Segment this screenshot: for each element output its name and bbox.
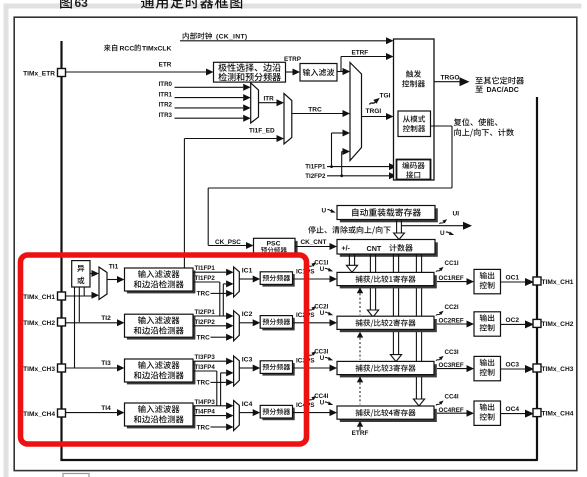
svg-text:CC1I: CC1I — [314, 260, 328, 267]
svg-text:CC4I: CC4I — [445, 394, 459, 401]
svg-text:TI1FP1: TI1FP1 — [195, 265, 216, 272]
svg-text:ITR: ITR — [264, 96, 275, 103]
svg-text:(CK_INT): (CK_INT) — [216, 34, 247, 41]
svg-text:TRGO: TRGO — [441, 75, 460, 82]
svg-text:TIMx_CH3: TIMx_CH3 — [23, 366, 55, 373]
svg-text:ITR1: ITR1 — [159, 91, 173, 98]
svg-text:TI4FP3: TI4FP3 — [195, 399, 216, 406]
svg-text:TI4FP4: TI4FP4 — [195, 409, 216, 416]
svg-text:OC2: OC2 — [506, 317, 520, 324]
svg-text:TIMx_ETR: TIMx_ETR — [23, 70, 55, 77]
svg-text:OC1: OC1 — [506, 275, 520, 282]
svg-text:CC3I: CC3I — [314, 349, 328, 356]
svg-text:DAC/ADC: DAC/ADC — [487, 87, 519, 94]
svg-text:63: 63 — [75, 0, 89, 10]
svg-text:IC4: IC4 — [242, 401, 253, 408]
svg-text:TIMxCLK: TIMxCLK — [142, 45, 172, 52]
svg-text:U: U — [320, 400, 325, 407]
svg-text:TIMx_CH1: TIMx_CH1 — [542, 279, 574, 286]
svg-text:CC2I: CC2I — [314, 303, 328, 310]
svg-text:PSC: PSC — [267, 241, 281, 248]
svg-text:CK_PSC: CK_PSC — [215, 239, 241, 246]
svg-text:CK_CNT: CK_CNT — [301, 239, 327, 246]
svg-text:CC3I: CC3I — [445, 349, 459, 356]
svg-text:U: U — [320, 355, 325, 362]
svg-text:TI3FP4: TI3FP4 — [195, 364, 216, 371]
svg-text:IC3: IC3 — [242, 356, 253, 363]
svg-text:U: U — [322, 207, 327, 214]
svg-text:+/-: +/- — [342, 246, 351, 253]
svg-text:TRC: TRC — [197, 380, 211, 387]
svg-text:OC3REF: OC3REF — [439, 362, 464, 369]
svg-text:TRC: TRC — [308, 106, 322, 113]
svg-text:OC4REF: OC4REF — [439, 407, 464, 414]
svg-text:OC2REF: OC2REF — [439, 318, 464, 325]
svg-text:ETRF: ETRF — [352, 49, 369, 56]
svg-text:TI1: TI1 — [109, 263, 119, 270]
svg-text:TRC: TRC — [197, 335, 211, 342]
svg-text:CC1I: CC1I — [445, 260, 459, 267]
svg-text:TIMx_CH2: TIMx_CH2 — [542, 321, 574, 328]
svg-text:TI1F_ED: TI1F_ED — [249, 128, 275, 135]
svg-text:ETRF: ETRF — [352, 430, 369, 437]
svg-text:IC2: IC2 — [242, 311, 253, 318]
svg-text:ETRP: ETRP — [284, 56, 302, 63]
svg-text:ITR3: ITR3 — [159, 112, 173, 119]
svg-text:TRC: TRC — [197, 291, 211, 298]
svg-text:U: U — [440, 230, 445, 237]
svg-text:TI2: TI2 — [101, 315, 111, 322]
svg-text:U: U — [320, 266, 325, 273]
svg-text:TIMx_CH4: TIMx_CH4 — [542, 410, 574, 417]
svg-text:OC3: OC3 — [506, 362, 520, 369]
svg-text:TIMx_CH4: TIMx_CH4 — [23, 411, 55, 418]
svg-text:IC1: IC1 — [242, 267, 253, 274]
svg-text:U: U — [320, 310, 325, 317]
svg-text:ETR: ETR — [159, 61, 172, 68]
svg-text:TIMx_CH2: TIMx_CH2 — [23, 320, 55, 327]
svg-text:ITR2: ITR2 — [159, 102, 173, 109]
svg-text:TRGI: TRGI — [366, 108, 382, 115]
svg-text:CC4I: CC4I — [314, 393, 328, 400]
svg-text:TI2FP1: TI2FP1 — [195, 309, 216, 316]
svg-text:TIMx_CH1: TIMx_CH1 — [23, 294, 55, 301]
svg-text:TI2FP2: TI2FP2 — [195, 319, 216, 326]
svg-text:CNT: CNT — [367, 244, 382, 253]
svg-text:UI: UI — [453, 211, 460, 218]
svg-text:TI4: TI4 — [101, 405, 111, 412]
svg-text:TI1FP2: TI1FP2 — [195, 275, 216, 282]
svg-text:OC1REF: OC1REF — [439, 275, 464, 282]
svg-text:TI3FP3: TI3FP3 — [195, 354, 216, 361]
svg-text:CC2I: CC2I — [445, 304, 459, 311]
svg-text:TI3: TI3 — [101, 360, 111, 367]
svg-text:TI1FP1: TI1FP1 — [305, 164, 326, 171]
svg-text:TGI: TGI — [380, 93, 391, 100]
svg-text:OC4: OC4 — [506, 406, 520, 413]
svg-text:TRC: TRC — [197, 424, 211, 431]
svg-text:TI2FP2: TI2FP2 — [305, 173, 326, 180]
svg-text:TIMx_CH3: TIMx_CH3 — [542, 366, 574, 373]
svg-text:ITR0: ITR0 — [159, 81, 173, 88]
svg-text:RCC: RCC — [120, 45, 135, 52]
